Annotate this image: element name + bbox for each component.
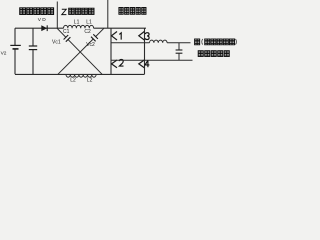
switch S1 blade xyxy=(112,32,118,41)
switch S3 blade xyxy=(139,32,145,41)
capacitor C1 plates xyxy=(64,35,71,42)
inductor L2 coil on bottom rail xyxy=(66,74,96,77)
section label: 直流电压源 (DC voltage source) xyxy=(20,8,54,15)
divider line between section 1 and 2 xyxy=(56,2,58,29)
inverter right leg wire xyxy=(144,28,146,74)
svg-text:L2: L2 xyxy=(70,78,76,84)
capacitor C2 diagonal (top-right to bottom-left) xyxy=(58,28,104,74)
load annotation line 2: 负载或电网 xyxy=(198,51,229,57)
svg-text:VD: VD xyxy=(38,17,47,23)
battery V2 plates xyxy=(10,45,20,49)
output line A wire xyxy=(111,42,150,44)
output line B wire xyxy=(111,59,193,61)
top rail wire xyxy=(15,27,64,29)
label 3 xyxy=(145,33,149,40)
capacitor C0 riser wire xyxy=(32,28,34,46)
switch S2 blade xyxy=(112,60,118,68)
svg-text:L2: L2 xyxy=(87,78,93,84)
top rail wire under/past L1 coil xyxy=(94,27,146,29)
divider line between section 2 and 3 xyxy=(107,0,109,28)
battery V2 riser wire xyxy=(14,28,16,45)
filter inductor coil on output line A xyxy=(150,40,168,43)
filter capacitor bottom stub wire xyxy=(178,53,180,60)
inverter left leg wire xyxy=(110,28,112,74)
capacitor C0 plates xyxy=(29,46,37,50)
svg-text:Vc2: Vc2 xyxy=(86,42,95,48)
bottom rail wire xyxy=(15,73,145,75)
svg-text:C2: C2 xyxy=(84,29,91,35)
filter capacitor riser wire xyxy=(178,43,180,50)
label 2 xyxy=(119,60,123,67)
section label: 单相逆变器 (single-phase inverter) xyxy=(119,8,146,15)
svg-text:L1: L1 xyxy=(86,20,92,26)
svg-text:L1: L1 xyxy=(74,20,80,26)
capacitor C0 bottom wire xyxy=(32,50,34,75)
load annotation line 1: 网（直流或交流） xyxy=(195,39,237,45)
label 4 xyxy=(145,60,149,67)
filter capacitor plates xyxy=(176,50,183,53)
inductor L1 coil on top rail xyxy=(64,25,94,28)
diode VD on top rail xyxy=(41,25,47,31)
svg-text:Vc1: Vc1 xyxy=(52,39,61,45)
section label: Z源逆变器 (Z-source inverter) xyxy=(62,8,94,14)
capacitor C2 plates xyxy=(91,34,98,41)
switch S4 blade xyxy=(139,60,145,68)
svg-text:V2: V2 xyxy=(1,50,7,56)
capacitor C1 diagonal (top-left to bottom-right) xyxy=(57,28,102,74)
label 1 xyxy=(119,33,121,40)
battery V2 bottom wire xyxy=(14,49,16,74)
svg-text:C1: C1 xyxy=(63,29,70,35)
output line A wire after coil xyxy=(167,42,190,44)
